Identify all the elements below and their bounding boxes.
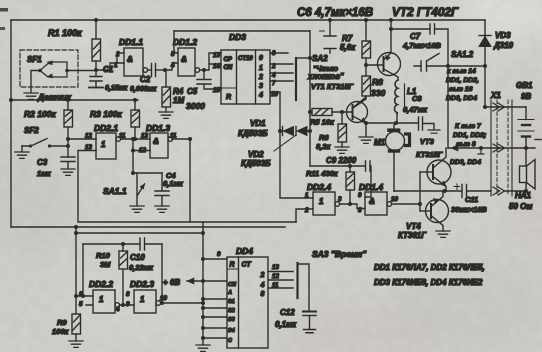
svg-text:R2 100к: R2 100к [24,109,56,119]
contact X1 pin1 [493,103,505,111]
wire VT3 VT4 base column [419,172,421,211]
svg-text:2: 2 [304,207,309,214]
svg-text:R: R [226,94,231,101]
svg-text:выв 16: выв 16 [449,86,473,93]
svg-text:1: 1 [101,140,106,149]
stub on common row [478,148,484,154]
svg-text:C7: C7 [410,32,421,41]
svg-text:14: 14 [213,63,220,70]
transistor VT2 GT402G [366,20,401,80]
capacitor C11 30u [451,184,491,214]
svg-text:SF1: SF1 [27,55,42,64]
svg-text:R11 430к: R11 430к [306,169,339,178]
svg-text:R8: R8 [372,77,383,87]
node S1 [201,297,205,301]
counter DD4 K176IE2 [217,246,279,348]
svg-text:C12: C12 [280,308,295,317]
svg-text:&: & [127,55,133,64]
svg-text:CT: CT [242,262,252,269]
node R2-DD2.1 [66,137,70,141]
ground R6 [335,147,349,153]
svg-text:М1: М1 [374,138,386,147]
inductor L1 [394,80,416,114]
svg-text:R9: R9 [57,318,67,327]
svg-text:DD3, DD4: DD3, DD4 [450,159,481,166]
wire SA2 common vertical [309,31,311,166]
node note-row [446,64,450,68]
wire osc loop left [82,244,84,296]
svg-text:SF2: SF2 [24,126,39,135]
logic gate DD1.3 [133,123,177,158]
svg-text:10: 10 [271,91,278,98]
resistor R9 100k [52,314,81,340]
svg-text:SA3 "Время": SA3 "Время" [312,249,367,259]
switch SA1.2 [414,50,485,71]
node rail-R1 [94,18,98,22]
svg-text:1: 1 [140,295,145,304]
svg-text:выв 8: выв 8 [456,141,476,148]
capacitor C9 2200 [310,156,371,197]
wire second rail +6V left [11,99,138,101]
battery minus dash [535,139,541,141]
svg-text:DD2.1: DD2.1 [94,123,118,133]
svg-text:S3: S3 [228,317,235,323]
wire left border [10,20,12,227]
svg-text:9В: 9В [521,92,531,101]
capacitor C2 0.068u [130,64,165,94]
node S2 [201,306,205,310]
node SA2-VD2 [308,129,312,133]
wire DD4 outputs to SA3 [268,272,293,289]
node rail2-border [9,98,13,102]
speaker HA1 [509,148,535,211]
wire DD4 CN pin [203,280,227,282]
ground R4 [159,112,173,118]
wire DD3 output stubs to SA2 [270,53,293,81]
svg-text:4: 4 [258,92,263,99]
svg-text:DD1, DD2,: DD1, DD2, [446,77,479,84]
svg-text:0,15мк: 0,15мк [105,85,128,92]
wire +supply top rail [11,19,485,21]
node R9-DD2.2 [74,294,78,298]
svg-text:1М: 1М [173,96,184,105]
node L1-M1 [394,121,398,125]
scan artifact left edge marks [0,8,8,12]
logic gate DD1.4 [358,182,420,215]
svg-text:C6 4,7мк×16В: C6 4,7мк×16В [297,7,373,19]
svg-text:VT4: VT4 [406,222,421,231]
battery GB1 [516,81,534,148]
node C pin [201,336,205,340]
node VT1-M1 [364,121,368,125]
svg-text:4,7мк×16В: 4,7мк×16В [402,41,441,50]
node R11 bottom [348,202,352,206]
transistor VT4 KT361G [398,191,449,240]
svg-text:VD3: VD3 [495,31,511,40]
svg-text:R4: R4 [173,87,184,96]
svg-text:1: 1 [99,295,104,304]
svg-text:CN: CN [224,65,233,71]
wire bottom common rail [11,226,285,228]
logic gate DD2.4 [304,182,365,215]
svg-text:11: 11 [170,133,177,140]
svg-text:к выв 14: к выв 14 [447,68,476,75]
svg-text:5: 5 [79,301,83,308]
capacitor C8 0.47u [403,94,440,133]
wire SA1.1 branch [133,139,162,173]
wire DD4 S pins [203,299,227,338]
svg-text:12: 12 [272,273,279,280]
svg-text:VT2 ГТ402Г: VT2 ГТ402Г [392,5,459,19]
node S3 [201,315,205,319]
wire SF1 to DD1.1 [96,63,124,70]
svg-text:9: 9 [126,301,130,308]
node R11 top [348,164,352,168]
svg-text:1: 1 [319,197,324,206]
svg-text:КТ361Г: КТ361Г [398,231,427,240]
node DD4 CN [201,279,205,283]
wire VT1 emitter to M1 node [366,122,396,124]
wire DD3 R pin15 [216,88,221,90]
node C2-R4 [163,68,167,72]
node rail-C6 [328,18,332,22]
svg-text:13: 13 [272,264,279,271]
wire C2 node to DD1.2 pin4 [165,63,178,70]
node DD1.2 out [202,68,206,72]
node X1 top row [483,105,487,109]
node R6 base [340,110,344,114]
svg-text:DD1.1: DD1.1 [119,37,143,47]
svg-text:SA2: SA2 [312,54,328,63]
svg-text:4: 4 [260,282,265,289]
svg-text:13: 13 [213,52,220,59]
capacitor C1 0.15u [89,65,128,92]
transistor VT1 KT315G [311,82,368,136]
svg-text:9: 9 [358,192,362,199]
svg-text:1: 1 [305,192,309,199]
svg-text:100к: 100к [52,327,70,336]
svg-text:C1: C1 [103,65,114,74]
svg-text:8: 8 [126,291,130,298]
svg-text:GB1: GB1 [516,81,533,90]
svg-text:C2: C2 [140,75,151,84]
svg-text:VD1: VD1 [250,119,266,128]
resistor R2 100k [24,100,73,157]
logic gate DD2.1 [85,123,150,159]
svg-text:DD1 К176ЛА7, DD2 К176ЛЕ5,: DD1 К176ЛА7, DD2 К176ЛЕ5, [374,263,485,272]
svg-text:КД503Б: КД503Б [238,129,268,138]
node R10 bottom [121,303,125,307]
switch SF2 [15,126,68,158]
svg-text:&: & [153,137,159,146]
capacitor C5 3000 [186,70,221,111]
node DD1.3out [188,137,192,141]
svg-text:15: 15 [213,87,220,94]
resistor R1 100k [48,20,101,70]
capacitor C4 0.1u [155,171,184,212]
wire R9 branch vertical [75,227,77,314]
svg-text:C5: C5 [187,87,198,96]
svg-text:C3: C3 [37,158,48,167]
resistor R3 100k [90,100,140,139]
node rail2-R3 [133,98,137,102]
wire oscillator top link [76,232,203,234]
svg-text:+ 6В: + 6В [163,278,180,287]
svg-text:C11: C11 [465,195,478,204]
svg-text:VT3: VT3 [420,137,435,146]
resistor R8 330 [353,76,385,108]
svg-text:X1: X1 [490,91,501,100]
svg-text:CN: CN [228,282,237,288]
capacitor C6 electrolytic [297,7,373,53]
diode VD3 D310 [479,20,514,107]
node rail-R7 [364,18,368,22]
svg-text:КД503Б: КД503Б [241,159,271,168]
svg-text:DD4: DD4 [236,246,253,256]
svg-text:8,2к: 8,2к [316,142,331,151]
wire R2 node to DD2.1 pin12 [68,138,96,140]
node DD2.3 out [160,301,164,305]
node C1 top [94,68,98,72]
svg-text:DD1.2: DD1.2 [173,37,197,47]
resistor R5 10k [310,109,352,127]
svg-text:DD1.3: DD1.3 [146,123,170,133]
resistor R4 1M [162,70,184,112]
node S4 [201,326,205,330]
svg-text:10: 10 [391,196,398,203]
svg-text:0,068мк: 0,068мк [130,86,157,93]
svg-text:C8: C8 [412,94,422,103]
svg-text:1: 1 [259,65,263,72]
svg-text:&: & [369,197,375,206]
ground VT1 emitter [359,137,373,143]
logic gate DD1.2 [170,31,204,76]
svg-text:DD2.4: DD2.4 [307,182,331,192]
svg-text:4: 4 [170,62,175,69]
svg-text:8: 8 [261,291,265,298]
ground R9 [69,341,83,347]
svg-text:8: 8 [358,207,362,214]
wire DD1.3 output long vertical to DD4 [172,139,203,344]
svg-text:&: & [181,55,187,64]
node SA2 top [308,56,312,60]
node rail2-R2 [66,98,70,102]
resistor R11 430k [306,166,355,204]
node supply branch [483,64,487,68]
svg-text:10: 10 [160,295,167,302]
svg-text:R5 10к: R5 10к [310,118,335,127]
capacitor C3 1u [37,157,75,178]
svg-text:DD1, DD2;: DD1, DD2; [453,132,486,139]
wire DD2.1 pin13 feedback [78,151,296,223]
label +6V arrow [163,278,203,287]
ground VT4 collector [436,231,450,237]
node emitters [443,189,447,193]
contact X1 pin3 [493,187,505,195]
wire X1 top row [485,106,526,108]
wire VD row [280,130,310,132]
svg-text:VT1 КТ315Г: VT1 КТ315Г [311,82,354,91]
svg-text:3М: 3М [100,260,111,269]
node R9-osc [74,231,78,235]
svg-text:DD3 К176ИЕ8, DD4 К176ИЕ2: DD3 К176ИЕ8, DD4 К176ИЕ2 [374,278,483,287]
svg-text:S1: S1 [228,299,235,305]
svg-text:5,6к: 5,6к [340,43,356,52]
svg-text:A: A [227,290,232,296]
node common row stub [479,146,483,150]
svg-text:DD2.3: DD2.3 [130,279,154,289]
arrow to pins 7-8 [451,145,458,151]
svg-text:НА1: НА1 [515,191,532,200]
wire supply-note vertical [447,66,449,148]
capacitor C7 4.7u [389,24,448,66]
svg-text:2: 2 [260,272,265,279]
wire VD1 node down to DD2.4 pin1 [280,131,313,198]
svg-text:0: 0 [259,55,263,62]
node rail-R9 [74,225,78,229]
svg-text:3000: 3000 [186,101,205,111]
logic gate DD1.1 [114,37,151,76]
svg-text:C9 2200: C9 2200 [326,156,357,165]
wire common row to X1 pin2 [448,147,535,149]
svg-text:DD3, DD4: DD3, DD4 [446,95,477,102]
svg-text:VD2: VD2 [248,150,264,159]
transistor VT3 KT315G [416,137,451,191]
motor M1 [374,123,410,191]
node HA1 bottom [524,189,528,193]
svg-text:2: 2 [258,74,263,81]
svg-text:Д310: Д310 [493,41,514,50]
node osc out [201,301,205,305]
switch SA3 selector [298,249,368,298]
ground C3 [61,169,75,175]
sensor SF1 dashed box [20,50,96,102]
svg-text:C10: C10 [130,253,145,262]
svg-text:9: 9 [217,251,221,258]
diode VD1 KD503B [238,119,294,138]
svg-text:0,47мк: 0,47мк [403,105,428,114]
wire rail to DD2.4 pin2 [296,209,313,222]
svg-text:S2: S2 [228,308,235,314]
node R7-VT2 base [364,63,368,67]
node SA2-R5 [308,110,312,114]
node loopleft-DD2.2 [81,294,85,298]
svg-text:DD1.4: DD1.4 [359,182,383,192]
node VD1 left [278,129,282,133]
node DD4 R [201,257,205,261]
resistor R7 5.6k [340,20,371,76]
diode VD2 KD503B [241,127,307,169]
node C4 branch [131,171,135,175]
node SA1.1 top [131,149,135,153]
wire emitter rail [394,190,462,192]
node R3 bottom [133,137,137,141]
node GB1 minus [524,146,528,150]
svg-text:330: 330 [371,88,385,98]
svg-text:CT10: CT10 [238,56,253,62]
svg-text:КТ315Г: КТ315Г [416,150,443,159]
svg-text:CP: CP [224,57,233,63]
connector X1 frame [490,91,512,196]
node SF2-R2 [66,144,70,148]
resistor R6 8.2k [316,112,347,151]
svg-text:50 Ом: 50 Ом [509,202,532,211]
svg-text:хлопков": хлопков" [307,72,344,81]
wire X1 pin3 to speaker [504,190,526,192]
svg-text:DD3: DD3 [229,32,246,42]
wire L1 to M1 node [396,114,418,123]
svg-text:R7: R7 [342,34,353,43]
svg-text:12: 12 [85,133,92,140]
switch SA1.1 [103,173,145,212]
node base column [418,202,422,206]
switch SA2 selector bar [296,54,344,100]
capacitor C10 0.22u [129,238,162,272]
svg-text:0,22мк: 0,22мк [129,263,154,272]
svg-text:3: 3 [259,83,263,90]
ground main column bottom [196,345,210,351]
svg-text:SA1.1: SA1.1 [103,186,127,196]
wire osc loop top [83,243,140,245]
svg-text:30мк×16В: 30мк×16В [451,205,487,214]
svg-text:R6: R6 [319,133,329,142]
node R10 top [121,242,125,246]
svg-text:R1 100к: R1 100к [48,28,82,38]
counter DD3 K176IE8 [213,32,278,104]
svg-text:К выв 7: К выв 7 [455,123,482,130]
wire osc loop right [161,244,163,303]
wire SA2 feedback to DD1.2 pin5 [174,30,310,32]
wire DD4 R pin [203,258,227,260]
svg-text:0,1мк: 0,1мк [275,320,297,329]
svg-text:SA1.2: SA1.2 [451,50,474,59]
node DD2.1out-SA1.1 [131,137,135,141]
node osc link right [201,231,205,235]
svg-text:S4: S4 [228,328,235,334]
svg-text:13: 13 [141,133,148,140]
svg-text:1мк: 1мк [37,169,52,178]
wire DD3 out10 down to VD1 [270,92,280,131]
note power pins [446,68,479,102]
svg-text:R10: R10 [96,251,111,260]
node rail-VT2emitter [389,18,393,22]
svg-text:DD2.2: DD2.2 [89,279,113,289]
logic gate DD2.2 [76,279,134,313]
wire DD1.2out to DD3 CN [204,53,221,70]
capacitor C12 0.1u [275,264,316,333]
note ground pins [450,123,486,166]
resistor R10 3M [96,244,128,305]
svg-text:R: R [230,262,235,269]
svg-text:Датчик: Датчик [37,92,72,102]
svg-text:0,1мк: 0,1мк [163,179,184,188]
svg-text:R3 100к: R3 100к [90,109,122,119]
logic gate DD2.3 [126,279,203,313]
contact X1 pin2 [493,144,505,152]
